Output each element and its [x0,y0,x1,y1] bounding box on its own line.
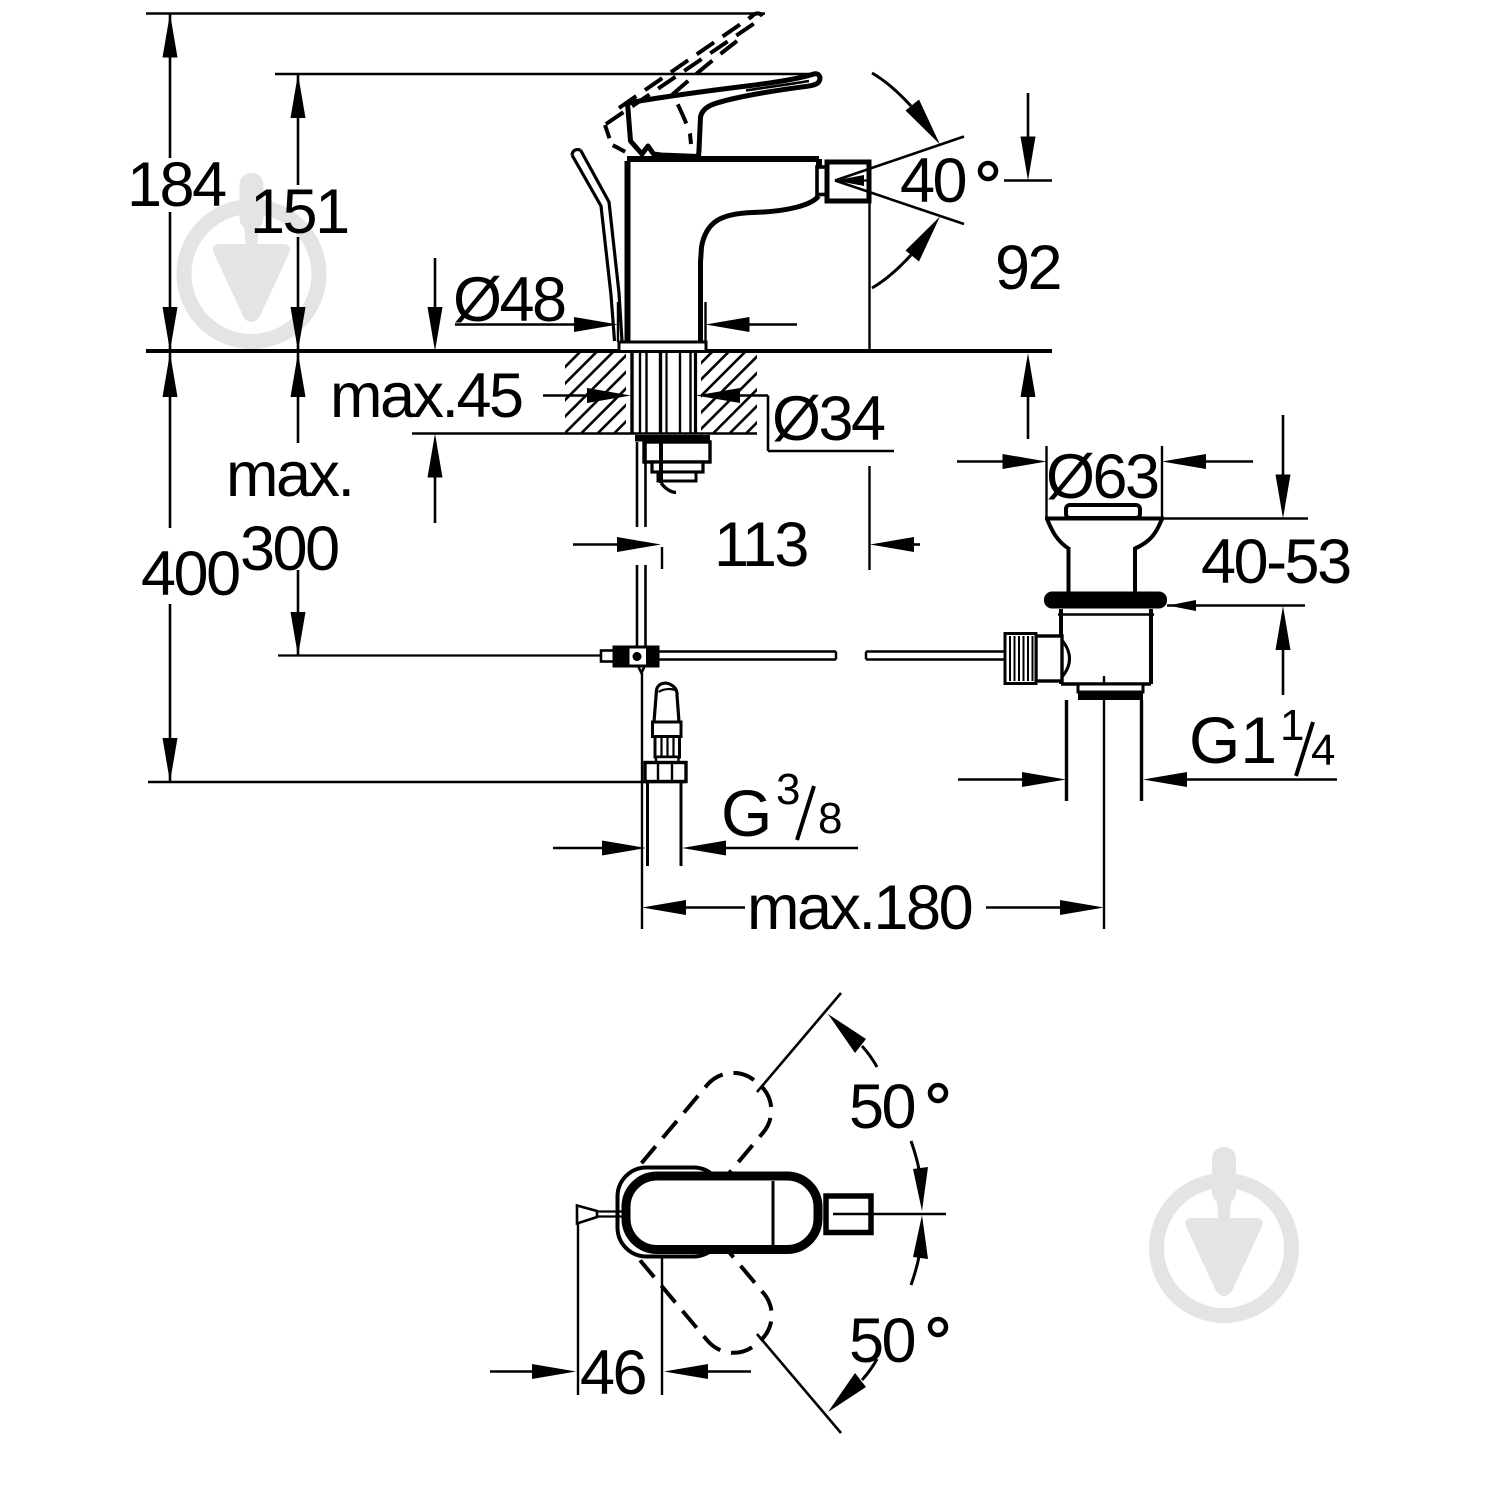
drain plug cap [1066,505,1140,518]
supply hose top opening [654,683,679,722]
svg-text:max.180: max.180 [747,873,972,943]
watermark logo top-left [184,173,319,342]
dimension G3/8 [553,847,603,850]
drain flange [1045,517,1164,521]
top view: 50 degree diagonals [757,993,841,1092]
dimension reference line 151 [275,73,820,76]
countertop underside line [412,432,757,435]
svg-text:max.45: max.45 [330,361,522,431]
drain gasket [1044,592,1167,609]
pop-up rod horizontal reference line [278,654,601,656]
dimension 151/max.300 line [297,74,300,185]
svg-text:46: 46 [580,1338,646,1408]
mounting washer [635,435,710,442]
svg-text:400: 400 [141,539,239,609]
svg-text:3: 3 [776,765,800,814]
dimension max.45 [434,258,437,307]
top view: 50 degree arc arrows upper [862,1046,877,1067]
dimension Ø34 leader [543,394,588,397]
svg-text:8: 8 [818,794,842,843]
hose collar [653,722,682,737]
drain knurled nut [1005,634,1036,684]
svg-text:50: 50 [849,1072,915,1142]
svg-text:Ø63: Ø63 [1046,442,1158,512]
dimension Ø63 [957,460,1003,463]
lever handle raised position (dashed) [606,16,760,125]
dimension 92 [1027,93,1030,137]
faucet lever handle (solid) [628,74,820,157]
svg-text:40: 40 [900,146,966,216]
supply elbow [659,442,663,483]
top view: nozzle [826,1196,871,1233]
dimension Ø48 [455,323,575,326]
top view: handle swing dashed capsules [620,1059,786,1236]
svg-text:G1: G1 [1189,703,1277,777]
lever tip inner line [746,81,809,91]
dimension 46 [577,1223,579,1395]
spout nozzle connector [817,167,827,195]
svg-text:92: 92 [995,233,1060,303]
faucet body outline [627,159,819,342]
svg-text:1: 1 [1280,701,1304,750]
svg-text:Ø48: Ø48 [453,265,565,335]
watermark logo bottom-right [1157,1147,1292,1316]
nozzle projection line [868,201,870,351]
top view: 50 degree arc arrows lower [862,1359,877,1380]
threaded mounting shank [632,353,696,433]
dimension 40-53 [1282,415,1285,475]
drain lever boss [1036,636,1062,681]
svg-text:4: 4 [1311,726,1335,775]
pop-up horizontal rod [658,650,836,653]
pop-up rod below counter [636,442,639,527]
hose tails [646,782,649,867]
drain tailpipe [1065,700,1068,801]
dimension max.180 [641,673,643,929]
svg-text:max.: max. [226,440,353,510]
svg-text:113: 113 [714,510,807,580]
40 degree rays [835,137,964,181]
spout nozzle [827,162,869,201]
svg-text:50: 50 [849,1306,915,1376]
svg-text:184: 184 [127,150,226,220]
40 degree vertex arrow [835,175,864,186]
svg-text:300: 300 [240,514,338,584]
top view: handle outer outline [618,1168,723,1257]
faucet base plate [619,342,706,352]
dimension 113 [573,543,618,546]
svg-text:Ø34: Ø34 [772,384,885,454]
top view: pull rod [577,1206,597,1224]
40 degree arc arrows [872,73,911,106]
countertop surface line [146,349,1052,353]
dimension G1 1/4 [958,778,1023,781]
top view: faucet body capsule [626,1176,818,1250]
svg-text:40-53: 40-53 [1201,527,1350,597]
pop-up pull rod (above counter) [572,155,615,341]
dimension 184/400 line [169,14,172,159]
mounting nut steps [644,442,710,462]
drain tail ring [1078,684,1143,692]
pop-up actuator joint [601,651,615,662]
top view: body divider line [772,1181,775,1245]
dimension reference line 184 (top) [146,12,765,15]
hose crimp ribs [655,737,680,758]
drain valve body [1059,609,1063,684]
top view: center line [833,1213,946,1215]
hose connection nut G3/8 [645,763,686,782]
bottom reference line 400 [148,781,686,784]
svg-text:151: 151 [250,177,348,247]
svg-text:G: G [721,776,772,850]
